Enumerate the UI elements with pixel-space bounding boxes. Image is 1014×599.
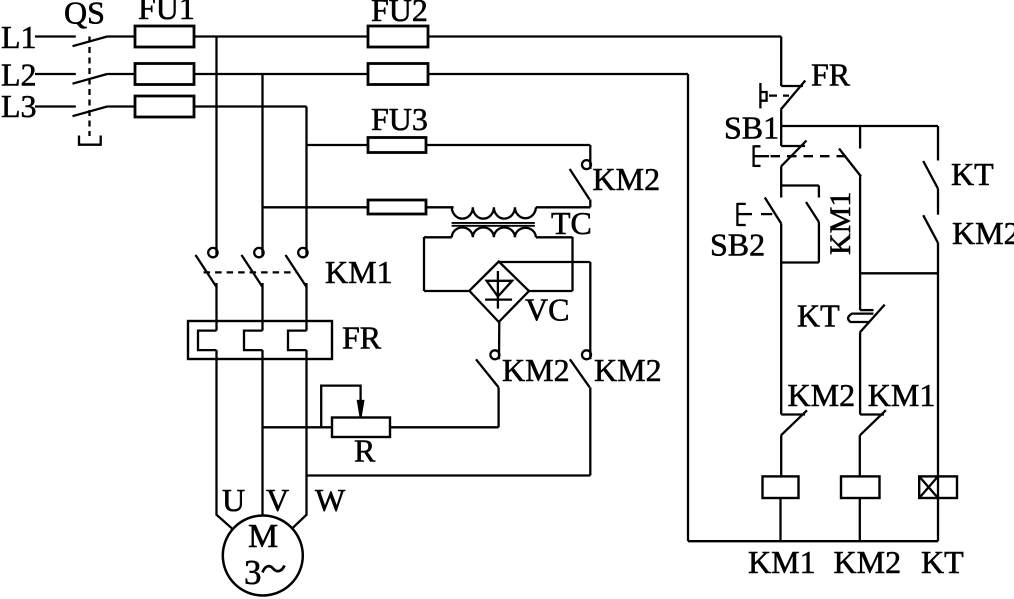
svg-text:QS: QS <box>64 0 105 31</box>
svg-text:KM2: KM2 <box>952 215 1014 251</box>
svg-text:KM1: KM1 <box>325 254 393 290</box>
svg-text:FU2: FU2 <box>371 0 428 28</box>
svg-text:SB1: SB1 <box>724 110 779 146</box>
svg-text:KM2: KM2 <box>788 377 856 413</box>
svg-text:KM1: KM1 <box>748 544 816 580</box>
svg-text:KM2: KM2 <box>594 352 662 388</box>
svg-text:TC: TC <box>551 205 592 241</box>
svg-text:R: R <box>354 433 376 469</box>
svg-text:SB2: SB2 <box>710 227 765 263</box>
svg-text:KT: KT <box>797 298 840 334</box>
svg-text:FR: FR <box>811 57 851 93</box>
svg-text:KT: KT <box>921 544 964 580</box>
svg-text:L1: L1 <box>1 19 37 55</box>
svg-text:KM2: KM2 <box>834 544 902 580</box>
svg-text:V: V <box>266 482 289 518</box>
svg-text:FU3: FU3 <box>371 101 428 137</box>
svg-text:M: M <box>248 518 278 555</box>
svg-text:VC: VC <box>525 292 569 328</box>
svg-text:3: 3 <box>244 553 262 592</box>
svg-text:L3: L3 <box>1 88 37 124</box>
svg-text:W: W <box>315 482 346 518</box>
svg-text:U: U <box>222 482 245 518</box>
svg-text:KT: KT <box>951 156 994 192</box>
svg-text:KM2: KM2 <box>502 352 570 388</box>
svg-text:FU1: FU1 <box>138 0 195 26</box>
svg-text:FR: FR <box>342 320 382 356</box>
svg-text:KM1: KM1 <box>824 192 857 255</box>
svg-text:KM2: KM2 <box>593 161 661 197</box>
svg-text:KM1: KM1 <box>868 377 936 413</box>
